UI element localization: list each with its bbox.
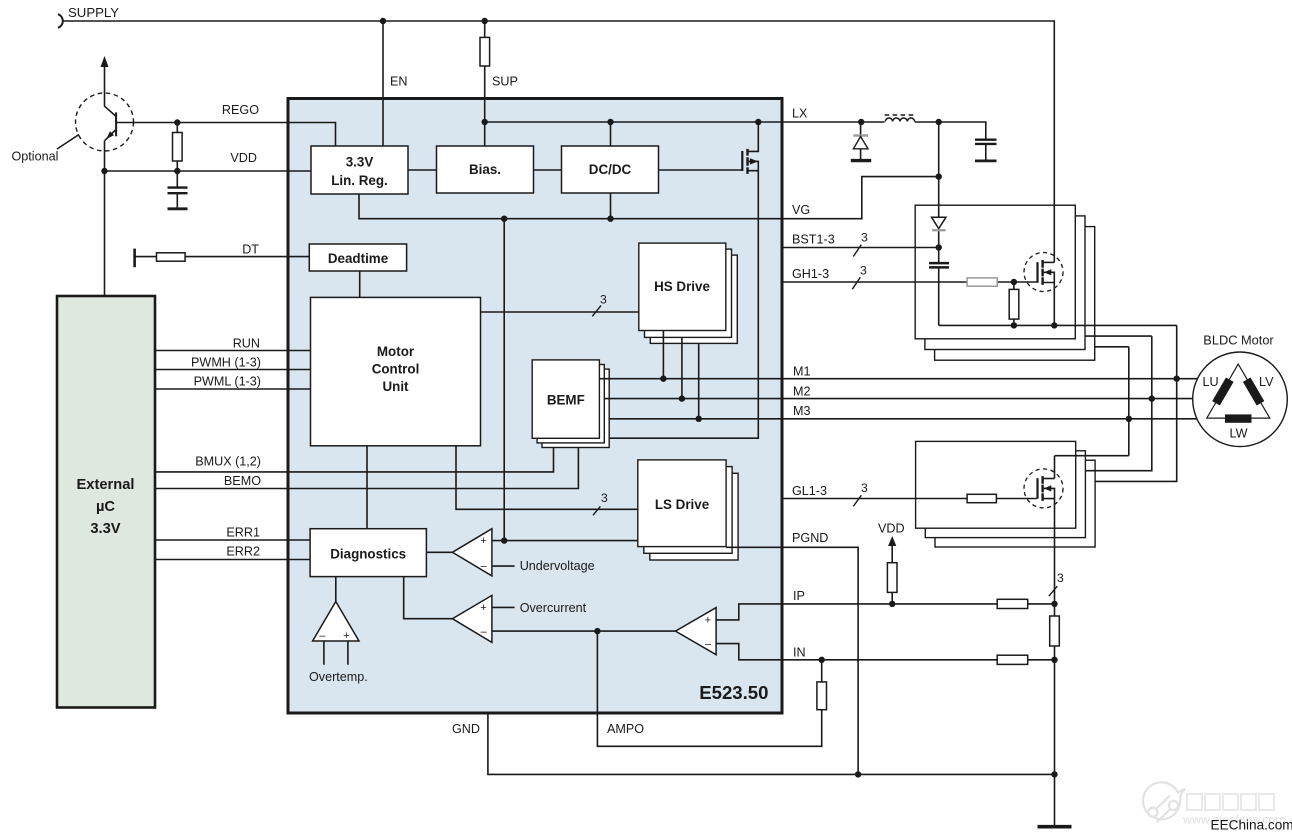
- wire EN from SUPPLY down to 3.3V Lin.Reg: [382, 21, 384, 146]
- transistor Q4 external LS MOSFET: [1024, 469, 1063, 508]
- wire sense amp - input jog to IN: [716, 644, 782, 660]
- bus width slash GL1-3: [853, 495, 861, 506]
- svg-text:Overtemp.: Overtemp.: [309, 670, 368, 684]
- wire ERR2: [155, 559, 310, 561]
- wire overcurrent output to Diagnostics: [404, 577, 453, 619]
- svg-text:GL1-3: GL1-3: [792, 484, 827, 498]
- wire boot diode to BST cap: [938, 230, 940, 263]
- resistor R3 on SUP: [480, 37, 490, 66]
- resistor R8 IP series: [997, 599, 1027, 608]
- svg-text:Undervoltage: Undervoltage: [520, 559, 595, 573]
- wire VDD pull-up arrow lead: [891, 545, 893, 604]
- svg-text:LX: LX: [792, 107, 808, 121]
- svg-text:Control: Control: [372, 362, 420, 377]
- wire GH1-3: [782, 281, 1037, 283]
- svg-text:REGO: REGO: [222, 103, 259, 117]
- svg-text:M2: M2: [793, 385, 811, 399]
- wire VDD net: [105, 170, 312, 172]
- svg-text:RUN: RUN: [233, 337, 260, 351]
- svg-text:GH1-3: GH1-3: [792, 267, 829, 281]
- bus width slash BST1-3: [853, 245, 861, 257]
- svg-text:3: 3: [1057, 571, 1064, 585]
- wire sense ground vertical to GND rail and earth: [1054, 660, 1056, 827]
- junction dots GND rail: [855, 771, 1058, 777]
- svg-text:VDD: VDD: [878, 522, 905, 536]
- junction dots REGO/VDD: [101, 119, 180, 174]
- svg-text:GND: GND: [452, 722, 480, 736]
- wire undervoltage + input / VG sense to LS Drive: [492, 540, 638, 542]
- svg-text:LW: LW: [1230, 427, 1248, 441]
- svg-text:PWML (1-3): PWML (1-3): [194, 375, 261, 389]
- svg-text:Lin. Reg.: Lin. Reg.: [331, 173, 388, 188]
- wire IP-IN divider vertical leads: [1054, 604, 1056, 660]
- wire SUP branch lower lead into IC to internal LX rail: [484, 66, 486, 122]
- resistor R10 IP-IN divider: [1050, 616, 1060, 646]
- junction dots SUPPLY rail: [380, 18, 488, 24]
- svg-text:AMPO: AMPO: [607, 722, 644, 736]
- block 3.3V Lin. Reg.: [311, 146, 408, 194]
- resistor R7 VDD pull-up: [887, 563, 897, 593]
- wire RUN: [155, 350, 311, 352]
- external microcontroller block External uC 3.3V: [57, 296, 155, 708]
- wire overcurrent - to sense amp output / AMPO node: [492, 630, 676, 632]
- wire M3 phase line: [609, 418, 1197, 420]
- wire HS module3 rail: [1095, 347, 1129, 456]
- wire DC/DC top feed: [610, 122, 612, 146]
- svg-text:Bias.: Bias.: [469, 162, 501, 177]
- wire transistor emitter down to uC: [104, 141, 106, 296]
- wire BST1-3: [782, 247, 939, 249]
- wire 3.3V to Bias link: [408, 169, 437, 171]
- block LS Drive (stack of 3): [638, 460, 738, 560]
- transistor Q2 DC/DC internal MOSFET: [742, 149, 758, 174]
- wire LS source sense vertical (3): [1054, 499, 1056, 604]
- wire BEMO: [155, 448, 578, 489]
- resistor R1 REGO-VDD: [173, 133, 183, 162]
- wire DC/DC to MOSFET gate: [659, 169, 743, 171]
- svg-text:EN: EN: [390, 75, 408, 89]
- resistor R6 LS gate: [967, 494, 996, 502]
- capacitor C3 bootstrap: [929, 263, 949, 267]
- svg-text:µC: µC: [96, 499, 115, 515]
- wire MCU to Diagnostics: [366, 446, 368, 529]
- comparator undervoltage U2: [452, 529, 492, 576]
- supply terminal arc: [58, 14, 63, 28]
- junction dot BST node: [936, 244, 942, 250]
- wire schottky diode leads: [860, 122, 862, 161]
- svg-text:SUP: SUP: [492, 75, 518, 89]
- wire overtemp comparator stubs: [324, 641, 348, 665]
- svg-text:+: +: [480, 535, 486, 547]
- capacitor C1 on VDD with ground bar: [168, 188, 188, 209]
- wire undervoltage - stub: [492, 565, 515, 567]
- wire SUP branch upper lead: [484, 21, 486, 37]
- wire PGND net: [726, 547, 858, 774]
- wire IN line: [782, 659, 1055, 661]
- wire Bias to DC/DC link: [534, 169, 562, 171]
- wire REGO-VDD resistor leads: [176, 123, 178, 172]
- svg-text:3: 3: [860, 264, 867, 278]
- comparator polarity marks overcurrent: [480, 602, 487, 638]
- svg-text:+: +: [343, 630, 349, 642]
- wire VDD cap bottom lead: [176, 193, 178, 209]
- wire MCU to HS Drive (3): [481, 311, 639, 313]
- watermark chinese characters placeholder: [1187, 794, 1274, 810]
- svg-text:E523.50: E523.50: [699, 682, 768, 703]
- comparator overcurrent U3: [452, 595, 492, 642]
- junction dots IP line: [889, 601, 1058, 607]
- wire M2 phase line: [605, 398, 1193, 400]
- svg-text:+: +: [480, 602, 486, 614]
- wire Bias top feed: [484, 122, 486, 146]
- external low-side driver module (stack of 3): [916, 441, 1096, 547]
- wire MCU to LS Drive (3): [456, 446, 638, 510]
- wire DT net: [135, 256, 310, 258]
- svg-text:ERR1: ERR1: [226, 526, 260, 540]
- wire HS MOSFET source vertical to rail: [1053, 283, 1055, 326]
- svg-text:BEMO: BEMO: [224, 474, 261, 488]
- wire PWMH(1-3): [155, 369, 311, 371]
- wire M1 phase line: [599, 378, 1197, 380]
- svg-text:EEChina.com: EEChina.com: [1211, 818, 1292, 833]
- svg-text:M1: M1: [793, 365, 811, 379]
- transistor Q1 optional PNP: [76, 56, 134, 151]
- terminal tick DT: [133, 249, 136, 268]
- svg-text:Optional: Optional: [12, 150, 59, 164]
- wire internal/external LX rail: [485, 122, 986, 140]
- svg-text:Overcurrent: Overcurrent: [520, 601, 587, 615]
- wire HS MOSFET drain tap: [1043, 261, 1055, 263]
- wire IP line: [782, 603, 1055, 605]
- svg-text:ERR2: ERR2: [226, 545, 260, 559]
- svg-text:–: –: [705, 639, 712, 651]
- svg-text:DC/DC: DC/DC: [589, 162, 632, 177]
- junction dot AMPO node: [594, 628, 600, 634]
- svg-text:LV: LV: [1259, 375, 1274, 389]
- external high-side driver module (stack of 3): [915, 205, 1094, 360]
- wire optional transistor leader line: [57, 135, 79, 150]
- wire GH gate resistor to gate, pull-down: [1013, 282, 1015, 325]
- block HS Drive (stack of 3): [639, 243, 738, 343]
- svg-text:3: 3: [600, 293, 607, 307]
- wire AMPO net: [597, 631, 821, 746]
- wire Diagnostics to overtemp comparator: [335, 577, 337, 602]
- svg-text:–: –: [481, 561, 488, 573]
- svg-text:3: 3: [861, 481, 868, 495]
- svg-text:LU: LU: [1203, 375, 1219, 389]
- wire GL1-3: [782, 498, 1037, 500]
- svg-text:M3: M3: [793, 404, 811, 418]
- svg-text:DT: DT: [242, 243, 259, 257]
- resistor R9 IN series: [997, 655, 1027, 664]
- svg-text:PGND: PGND: [792, 531, 828, 545]
- junction dots LX rail: [482, 119, 942, 125]
- wire overcurrent + stub: [492, 606, 515, 608]
- svg-text:Motor: Motor: [377, 344, 415, 359]
- svg-text:BST1-3: BST1-3: [792, 233, 835, 247]
- wire LX cap bottom lead: [985, 144, 987, 161]
- comparator polarity marks overtemp: [319, 630, 349, 642]
- wire HS module source rail to M1 junction: [939, 325, 1177, 481]
- svg-text:BMUX (1,2): BMUX (1,2): [195, 455, 261, 469]
- comparator polarity marks undervoltage: [480, 535, 487, 573]
- block Diagnostics: [310, 529, 426, 577]
- wire HS module2 rail: [1085, 336, 1152, 471]
- svg-text:LS Drive: LS Drive: [655, 497, 709, 512]
- svg-text:HS Drive: HS Drive: [654, 279, 710, 294]
- transistor Q3 external HS MOSFET: [1024, 253, 1063, 292]
- wire REGO net: [116, 123, 335, 147]
- wire VDD cap top lead: [176, 171, 178, 188]
- inductor L1 with dashed core: [885, 115, 915, 122]
- IC U1 E523.50 body: [288, 99, 782, 714]
- resistor R5 HS gate pull-down: [1009, 289, 1019, 319]
- wire HS drive outputs to phase lines: [663, 331, 698, 419]
- svg-text:Unit: Unit: [382, 379, 409, 394]
- wire undervoltage output to Diagnostics: [426, 551, 452, 553]
- svg-text:VG: VG: [792, 203, 810, 217]
- VDD supply arrow symbol: [888, 536, 896, 546]
- wire BST cap bottom lead: [938, 267, 940, 325]
- comparator overtemperature U5: [313, 602, 359, 642]
- wire AMPO resistor top lead to IN: [821, 660, 823, 682]
- wire LS MOSFET drain tap: [1043, 478, 1055, 480]
- op-amp current sense U4: [676, 608, 717, 655]
- svg-text:VDD: VDD: [230, 151, 257, 165]
- op-amp polarity marks sense: [705, 615, 712, 651]
- svg-text:–: –: [481, 626, 488, 638]
- resistor R4 HS gate (gray): [967, 278, 997, 286]
- wire LS module drain line: [1055, 456, 1129, 479]
- junction dot undervoltage VG sense: [501, 537, 507, 543]
- wire DCDC MOSFET drain tap: [748, 122, 759, 151]
- block Motor Control Unit: [311, 297, 481, 445]
- block DC/DC: [562, 146, 659, 193]
- diode D1 schottky to ground: [851, 136, 871, 161]
- svg-text:3: 3: [861, 231, 868, 245]
- watermark logo circle: [1143, 782, 1185, 822]
- wire DC/DC output to BEMF supply: [609, 171, 758, 439]
- wire ERR1: [155, 539, 310, 541]
- svg-text:IN: IN: [793, 646, 806, 660]
- wire VG net: [359, 177, 939, 541]
- wire Deadtime to MCU: [359, 271, 361, 297]
- capacitor C2 on LX output with ground bar: [975, 140, 997, 161]
- wire BMUX(1,2): [155, 448, 554, 472]
- svg-text:BLDC Motor: BLDC Motor: [1203, 333, 1274, 348]
- svg-text:Deadtime: Deadtime: [328, 251, 388, 266]
- junction dots HS gate and rail: [1011, 279, 1058, 329]
- resistor R2 on DT: [157, 253, 186, 261]
- svg-text:BEMF: BEMF: [547, 393, 585, 408]
- diode D2 bootstrap in HS module: [932, 217, 947, 230]
- svg-text:PWMH (1-3): PWMH (1-3): [191, 356, 261, 370]
- svg-text:–: –: [319, 630, 326, 642]
- bus width slash sense 3: [1049, 586, 1058, 596]
- bus width slash MCU-LS 3: [593, 506, 600, 515]
- junction dots M1 M2 M3: [660, 376, 1180, 422]
- svg-text:+: +: [705, 615, 711, 627]
- wire external VG cap branch / HS boot node: [938, 122, 940, 217]
- motor M1 BLDC: [1193, 352, 1288, 447]
- wire SUPPLY net top rail: [64, 21, 1055, 262]
- svg-text:3.3V: 3.3V: [90, 521, 120, 537]
- svg-text:3: 3: [601, 491, 608, 505]
- ground symbol at sense network: [1038, 825, 1072, 829]
- bus width slash GH1-3: [852, 277, 860, 289]
- svg-text:External: External: [77, 477, 135, 493]
- wire GND net bottom rail: [488, 714, 1055, 775]
- block Deadtime: [309, 244, 406, 271]
- wire PWML(1-3): [155, 388, 311, 390]
- svg-text:3.3V: 3.3V: [346, 155, 374, 170]
- block BEMF (stack of 3): [532, 360, 609, 448]
- svg-text:IP: IP: [793, 589, 805, 603]
- bus width slash MCU-HS 3: [592, 306, 601, 317]
- junction dots VG net: [501, 173, 942, 221]
- junction dots IN line: [819, 657, 1058, 663]
- svg-text:SUPPLY: SUPPLY: [68, 5, 119, 20]
- block Bias.: [437, 146, 534, 193]
- resistor R11 AMPO to IN: [817, 682, 827, 710]
- wire sense amp + input jog to IP: [716, 604, 782, 620]
- svg-text:Diagnostics: Diagnostics: [330, 547, 406, 562]
